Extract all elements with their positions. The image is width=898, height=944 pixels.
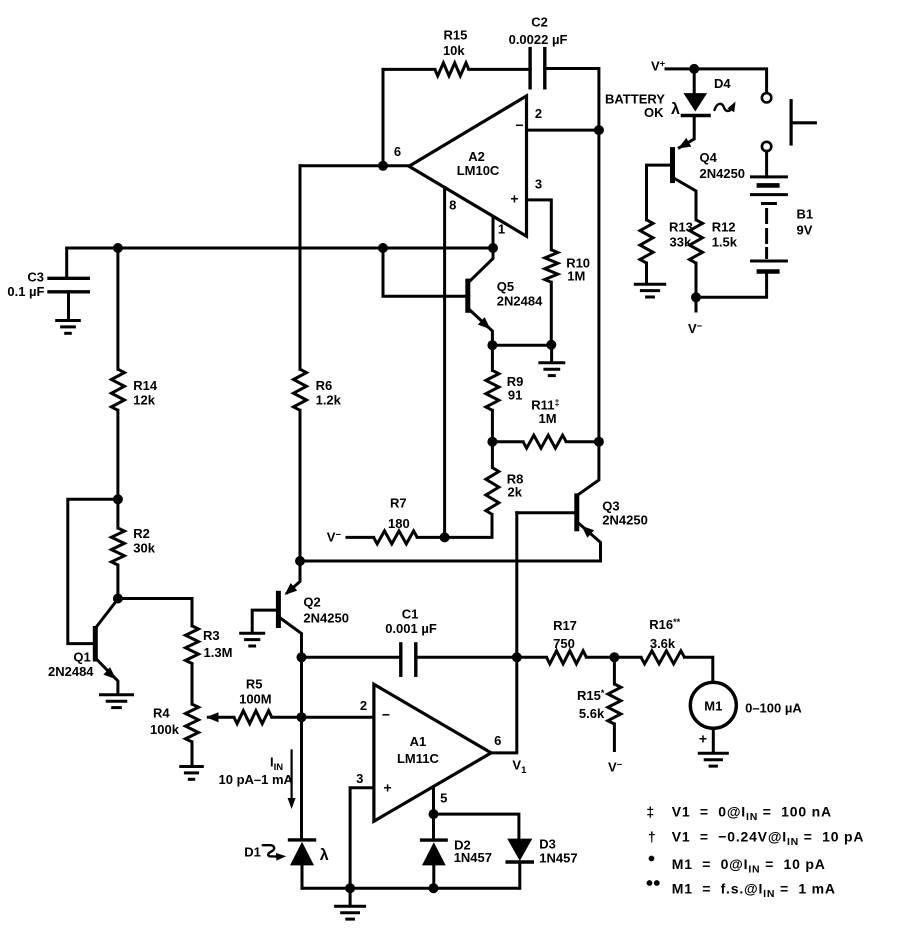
label V1 — [512, 758, 527, 777]
svg-text:D4: D4 — [714, 76, 731, 91]
resistor R13 — [640, 220, 653, 282]
wire V- stub — [695, 297, 698, 311]
label R16 value — [650, 636, 676, 651]
svg-text:R3: R3 — [203, 628, 220, 643]
squiggle arrow at D1 — [263, 845, 287, 860]
svg-text:+: + — [699, 731, 707, 747]
svg-text:LM11C: LM11C — [397, 751, 440, 766]
label R2 value — [133, 541, 155, 556]
wire Q3 base to V1 line — [517, 511, 575, 514]
minus sign A1 — [382, 707, 390, 723]
svg-text:1N457: 1N457 — [539, 851, 577, 866]
svg-text:Q4: Q4 — [700, 150, 718, 165]
label V- supply left — [327, 530, 342, 545]
svg-text:2k: 2k — [508, 485, 523, 500]
ground below C3 — [55, 321, 81, 334]
wire Q2 collector — [281, 619, 302, 658]
node pin6 — [378, 161, 388, 171]
svg-text:10 pA–1 mA: 10 pA–1 mA — [219, 772, 294, 787]
ground below R10 — [538, 345, 565, 376]
node input/R5/pin2 — [297, 712, 307, 722]
label C2 — [531, 15, 548, 30]
diode D4 LED — [679, 69, 709, 148]
ground below rail — [334, 888, 366, 919]
svg-text:C1: C1 — [402, 607, 419, 622]
label R3 — [203, 628, 220, 643]
svg-text:2: 2 — [360, 698, 367, 713]
wire A2 pin3 to R10 — [527, 200, 552, 250]
label lambda at D4 — [671, 101, 680, 118]
pin label 3 of A2 — [535, 177, 542, 192]
label D3 — [539, 837, 556, 852]
wire A2 pin2 inverting input — [527, 129, 599, 132]
svg-text:2: 2 — [535, 106, 542, 121]
plus sign M1 — [699, 731, 707, 747]
label V- below R12 — [688, 321, 703, 336]
op-amp A1 — [374, 684, 491, 821]
arrow Q3 emitter — [582, 526, 595, 538]
node pin3/ground rail — [345, 883, 355, 893]
pin label 8 of A2 — [449, 198, 456, 213]
transistor Q3 — [574, 493, 579, 531]
resistor R4 potentiometer — [186, 704, 199, 765]
svg-text:2N4250: 2N4250 — [303, 611, 349, 626]
note marker star — [649, 856, 655, 862]
label BATTERY — [605, 92, 665, 107]
svg-text:8: 8 — [449, 198, 456, 213]
wire A1 pin5 stub — [432, 787, 435, 814]
switch contact upper — [762, 93, 771, 102]
label R11 — [531, 398, 559, 413]
svg-text:180: 180 — [388, 516, 410, 531]
svg-text:6: 6 — [494, 733, 501, 748]
wire Q1 base branch — [68, 499, 118, 643]
label A2 — [468, 149, 485, 164]
diode D2 — [422, 814, 447, 888]
svg-text:+: + — [510, 191, 518, 207]
label R7 value — [388, 516, 410, 531]
svg-text:λ: λ — [320, 847, 329, 864]
node Q2 collector / C1 — [297, 652, 307, 662]
label R12 — [712, 220, 736, 235]
svg-text:100k: 100k — [150, 722, 180, 737]
wire Q4 collector — [675, 179, 697, 220]
ground below R4 — [179, 767, 204, 780]
label R15 value — [443, 43, 465, 58]
label Q5 part — [497, 294, 543, 309]
label R8 value — [508, 485, 523, 500]
label Q2 — [303, 595, 320, 610]
label R4 — [153, 706, 170, 721]
wire V+ rail — [666, 69, 767, 92]
svg-text:B1: B1 — [797, 207, 814, 222]
diode D1 — [290, 840, 315, 888]
label R11 value — [539, 411, 557, 426]
label A1 — [410, 734, 427, 749]
svg-text:30k: 30k — [133, 541, 155, 556]
label A2 part — [457, 163, 500, 178]
label M1 range — [745, 701, 802, 716]
svg-text:5: 5 — [440, 791, 447, 806]
wire A1 output — [491, 513, 517, 753]
resistor R8 — [486, 442, 499, 515]
wire Q1 collector — [97, 599, 118, 626]
label R4 value — [150, 722, 180, 737]
resistor R7 — [347, 515, 492, 544]
pin label 3 of A1 — [356, 771, 363, 786]
arrow Q4 emitter — [678, 138, 691, 149]
svg-text:2N2484: 2N2484 — [497, 294, 543, 309]
svg-text:12k: 12k — [133, 393, 155, 408]
label Q1 — [73, 650, 90, 665]
battery B1 — [752, 151, 787, 271]
label C1 — [402, 607, 419, 622]
transistor Q1 — [93, 626, 98, 662]
label Q2 part — [303, 611, 349, 626]
node R10 bottom — [546, 340, 556, 350]
svg-text:R4: R4 — [153, 706, 170, 721]
note V1 at 100nA — [672, 804, 832, 824]
resistor R9 — [486, 345, 499, 442]
svg-text:LM10C: LM10C — [457, 163, 500, 178]
svg-text:9V: 9V — [797, 223, 813, 238]
capacitor C2 — [530, 49, 545, 88]
svg-text:OK: OK — [644, 105, 664, 120]
wire inverting-input net down to Q3 collector — [580, 130, 599, 494]
label R10 value — [567, 268, 585, 283]
svg-text:R14: R14 — [133, 378, 158, 393]
wire A2 pin1 stub — [492, 218, 495, 249]
svg-text:C3: C3 — [27, 270, 44, 285]
label C3 value — [7, 284, 44, 299]
switch actuator — [791, 101, 815, 144]
svg-text:C2: C2 — [531, 15, 548, 30]
wire battery bottom to node — [696, 273, 767, 297]
svg-text:1: 1 — [498, 222, 505, 237]
arrow input current Iin — [288, 751, 296, 810]
pin label 6 of A1 — [494, 733, 501, 748]
svg-text:3: 3 — [356, 771, 363, 786]
label Q1 part — [48, 664, 94, 679]
svg-text:A2: A2 — [468, 149, 485, 164]
resistor R15 — [383, 63, 530, 76]
svg-text:6: 6 — [394, 144, 401, 159]
label R14 — [133, 378, 158, 393]
note marker dagger — [648, 828, 656, 844]
label R6 value — [316, 393, 342, 408]
wire Q4 base to R13 — [647, 165, 671, 220]
label R10 — [566, 256, 590, 271]
pin label 6 of A2 — [394, 144, 401, 159]
capacitor C3 — [49, 248, 88, 319]
svg-text:R15*: R15* — [577, 688, 605, 703]
label Q3 part — [602, 513, 648, 528]
resistor R14 — [111, 248, 124, 499]
svg-text:−: − — [382, 707, 390, 723]
label R13 — [669, 220, 693, 235]
svg-text:2N4250: 2N4250 — [700, 166, 746, 181]
arrow Q1 emitter — [103, 667, 116, 679]
node R14/R2 junction — [113, 494, 123, 504]
svg-text:2N2484: 2N2484 — [48, 664, 94, 679]
label C3 — [27, 270, 44, 285]
svg-text:10k: 10k — [443, 43, 465, 58]
resistor R10 — [545, 250, 558, 345]
svg-text:−: − — [515, 117, 523, 133]
svg-text:0.1 µF: 0.1 µF — [7, 284, 44, 299]
label Iin range — [219, 772, 294, 787]
svg-text:5.6k: 5.6k — [579, 706, 605, 721]
label R5 — [246, 677, 263, 692]
label B1 value — [797, 223, 813, 238]
label D2 — [454, 838, 471, 853]
label OK — [644, 105, 664, 120]
node D2 bottom — [429, 883, 439, 893]
resistor R6 — [294, 166, 307, 561]
capacitor C1 — [401, 644, 416, 675]
svg-text:R2: R2 — [133, 526, 150, 541]
svg-text:0.0022 µF: 0.0022 µF — [509, 32, 568, 47]
label B1 — [797, 207, 814, 222]
label R3 value — [204, 645, 233, 660]
label lambda at D1 — [320, 847, 329, 864]
switch contact lower — [762, 142, 771, 151]
svg-text:Q3: Q3 — [602, 499, 619, 514]
wire Q5 collector — [470, 248, 493, 281]
node R17/R15*/R16 junction — [609, 652, 619, 662]
pin label 1 of A2 — [498, 222, 505, 237]
resistor R16 — [614, 651, 712, 683]
node R2/R3/Q1 junction — [113, 594, 123, 604]
label R17 — [553, 618, 577, 633]
svg-text:33k: 33k — [670, 235, 692, 250]
svg-text:750: 750 — [553, 636, 575, 651]
svg-text:†: † — [648, 828, 656, 844]
diode D3 — [507, 839, 532, 889]
resistor R17 — [517, 651, 615, 664]
ground below Q1 — [99, 695, 134, 708]
svg-text:1M: 1M — [567, 268, 585, 283]
label Iin — [270, 755, 283, 774]
svg-text:R5: R5 — [246, 677, 263, 692]
label Q5 — [497, 279, 514, 294]
svg-text:91: 91 — [508, 388, 522, 403]
note M1 at 1mA — [672, 881, 836, 901]
svg-text:1M: 1M — [539, 411, 557, 426]
wire C1 left — [302, 656, 401, 659]
wire Q3 emitter — [580, 524, 601, 561]
wire input node vertical — [300, 657, 303, 839]
label R17 value — [553, 636, 575, 651]
label V- below R15star — [608, 760, 623, 775]
label R15star value — [579, 706, 605, 721]
label R6 — [316, 378, 333, 393]
svg-text:1.2k: 1.2k — [316, 393, 342, 408]
wire R15 left lead vertical — [382, 69, 385, 165]
wire A2 pin6 output to R6 branch corner — [300, 164, 409, 167]
node pin8/R7 junction — [440, 532, 450, 542]
wire pin5 to D3 — [434, 814, 519, 839]
wire A2 pin8 to V- rail — [443, 188, 446, 538]
transistor Q4 — [670, 147, 675, 183]
svg-text:0–100 µA: 0–100 µA — [745, 701, 802, 716]
svg-text:Q2: Q2 — [303, 595, 320, 610]
node rail to R14 — [113, 243, 123, 253]
node rail to A2 pin1 — [488, 243, 498, 253]
resistor R2 — [111, 499, 124, 598]
label R2 — [133, 526, 150, 541]
wire bottom ground rail — [302, 887, 519, 890]
note M1 at 10pA — [672, 856, 826, 876]
label Q4 part — [700, 166, 746, 181]
wire Q2 base to ground — [252, 610, 276, 631]
svg-text:+: + — [384, 779, 392, 795]
wire reference rail — [67, 247, 493, 250]
svg-text:1N457: 1N457 — [454, 850, 492, 865]
svg-text:λ: λ — [671, 101, 680, 118]
node V+/D4 — [689, 64, 699, 74]
label R15star — [577, 688, 605, 703]
label R8 — [507, 472, 524, 487]
label R12 value — [712, 235, 738, 250]
plus sign A2 — [510, 191, 518, 207]
label D4 — [714, 76, 731, 91]
node R12/battery/Vminus — [691, 292, 701, 302]
svg-text:3: 3 — [535, 177, 542, 192]
op-amp A2 — [409, 96, 527, 236]
pin label 5 of A1 — [440, 791, 447, 806]
arrow Q5 emitter — [478, 317, 491, 329]
label R14 value — [133, 393, 155, 408]
svg-text:3.6k: 3.6k — [650, 636, 676, 651]
label D2 part — [454, 850, 492, 865]
node R9/R11/R8 junction — [487, 437, 497, 447]
label Q3 — [602, 499, 619, 514]
node R11 right junction — [594, 437, 604, 447]
note marker double star — [647, 880, 660, 886]
label R9 — [507, 374, 524, 389]
svg-text:‡: ‡ — [646, 804, 654, 820]
meter M1 — [690, 682, 736, 728]
svg-text:0.001 µF: 0.001 µF — [385, 621, 437, 636]
svg-text:D3: D3 — [539, 837, 556, 852]
wire Q2 emitter — [288, 561, 301, 593]
resistor R11 — [492, 435, 599, 448]
transistor Q5 — [465, 279, 470, 313]
ground below M1 — [698, 753, 729, 766]
node Q5 emitter junction — [487, 340, 497, 350]
ground below R13 — [634, 284, 666, 297]
label V+ supply — [651, 59, 666, 74]
label Q4 — [700, 150, 718, 165]
svg-text:R12: R12 — [712, 220, 736, 235]
svg-text:D1: D1 — [244, 845, 261, 860]
wire R3 branch — [118, 599, 192, 626]
label R9 value — [508, 388, 522, 403]
resistor R15star — [608, 657, 621, 750]
plus sign A1 — [384, 779, 392, 795]
svg-text:R17: R17 — [553, 618, 577, 633]
label A1 part — [397, 751, 440, 766]
wire Q5 emitter — [470, 311, 492, 346]
wire Q5 base branch — [383, 248, 465, 296]
node R6/Q2 emitter — [295, 556, 305, 566]
minus sign A2 — [515, 117, 523, 133]
svg-text:2N4250: 2N4250 — [602, 513, 648, 528]
label R5 value — [239, 692, 272, 707]
label R13 value — [670, 235, 692, 250]
squiggle arrow at D4 — [715, 102, 736, 113]
label D1 — [244, 845, 261, 860]
svg-text:A1: A1 — [410, 734, 427, 749]
svg-text:Q5: Q5 — [497, 279, 514, 294]
svg-text:Q1: Q1 — [73, 650, 90, 665]
wire A1 pin3 to ground rail — [350, 788, 374, 888]
wire Q5 emitter node to R10 ground node — [492, 344, 551, 347]
node rail to Q5 base — [378, 243, 388, 253]
svg-text:M1: M1 — [704, 699, 722, 714]
wire C2 to inverting-input node — [545, 69, 599, 131]
svg-text:100M: 100M — [239, 692, 272, 707]
wire Q1 emitter — [97, 660, 118, 693]
label C2 value — [509, 32, 568, 47]
label C1 value — [385, 621, 437, 636]
node pin5 — [429, 809, 439, 819]
note marker double-dagger — [646, 804, 654, 820]
label R7 — [390, 496, 407, 511]
svg-text:1.5k: 1.5k — [712, 235, 738, 250]
transistor Q2 — [276, 591, 281, 628]
wire C1 right to V1 — [416, 656, 517, 659]
resistor R3 — [186, 626, 199, 704]
note V1 at 10pA — [672, 828, 864, 848]
resistor R5 and wiper arrow — [206, 711, 374, 724]
svg-text:R15: R15 — [443, 28, 467, 43]
label M1 — [704, 699, 722, 714]
wire M1 to ground — [712, 728, 715, 751]
label R15 — [443, 28, 467, 43]
pin label 2 of A2 — [535, 106, 542, 121]
label R16 — [649, 617, 680, 632]
svg-text:1.3M: 1.3M — [204, 645, 233, 660]
arrow Q2 emitter — [285, 583, 298, 595]
svg-text:R13: R13 — [669, 220, 693, 235]
svg-text:R7: R7 — [390, 496, 407, 511]
label D3 part — [539, 851, 577, 866]
ground at Q2 base — [239, 633, 265, 646]
node pin2/C2 junction — [594, 125, 604, 135]
wire Q2/Q3 emitter rail — [300, 560, 601, 563]
resistor R12 — [690, 220, 703, 297]
pin label 2 of A1 — [360, 698, 367, 713]
svg-text:R6: R6 — [316, 378, 333, 393]
node V1/C1/R17 junction — [512, 652, 522, 662]
